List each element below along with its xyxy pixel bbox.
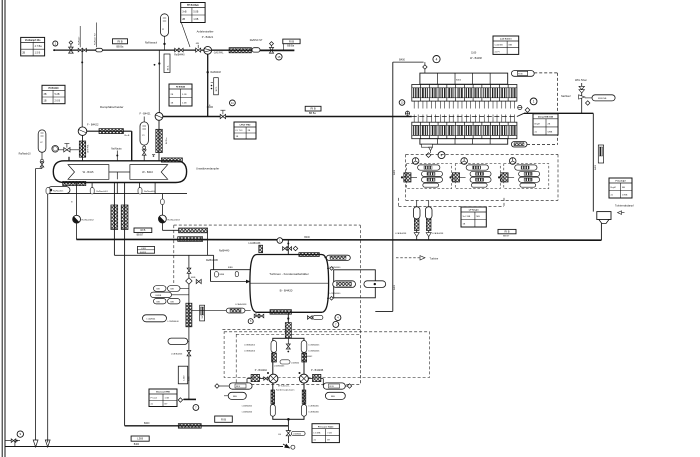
svg-text:L369: L369 — [141, 248, 147, 250]
svg-text:B400: B400 — [456, 80, 462, 82]
pipe main condensate header y=239.9 — [76, 238, 601, 241]
valve pair upper connect vessel — [327, 268, 329, 270]
vertical capsule above line A x=164 — [161, 14, 169, 37]
svg-text:2.6 B: 2.6 B — [55, 100, 61, 103]
table PI and bottom left — [149, 389, 177, 407]
pot drain to main line — [600, 224, 602, 241]
svg-text:Ra/Nashim: Ra/Nashim — [53, 191, 64, 193]
long drop line x=35.6 to bottom flare — [35, 169, 37, 443]
suction box bottom junction — [287, 418, 290, 421]
svg-text:Na/Nauta: Na/Nauta — [111, 148, 122, 151]
drum top stub x=69 — [68, 157, 70, 161]
outer dashed enclosure fan groups — [406, 153, 558, 155]
svg-text:LCB/B44: LCB/B44 — [291, 362, 300, 364]
label box Rl B left — [134, 228, 152, 233]
svg-text:LOB/B4455: LOB/B4455 — [244, 345, 256, 347]
svg-text:5/BB: 5/BB — [548, 131, 553, 133]
dashed double lines mid — [222, 329, 360, 331]
svg-text:3B TL: 3B TL — [216, 86, 218, 91]
svg-text:P - B4420B: P - B4420B — [311, 369, 324, 372]
stub capsule up to line B — [143, 117, 145, 122]
wire x=159 from line A down to pump P-B4421 — [158, 50, 160, 112]
svg-text:4: 4 — [441, 153, 443, 157]
svg-text:LCA/B4438: LCA/B4438 — [432, 232, 444, 235]
discharge capsules left Rl B — [229, 383, 252, 389]
level column LCA 2 — [428, 200, 430, 206]
node 10 circle left of bank — [399, 100, 405, 106]
svg-text:4: 4 — [436, 57, 438, 61]
node 4 instrument circle — [433, 56, 440, 63]
svg-text:PI: PI — [142, 135, 144, 137]
svg-text:Cold BB: Cold BB — [495, 45, 504, 47]
svg-text:1B: 1B — [44, 100, 47, 103]
svg-text:BB BT: BB BT — [137, 235, 144, 237]
svg-text:Luft Kühler: Luft Kühler — [500, 38, 512, 41]
pipe bottom header y=425.8 — [125, 425, 289, 427]
drum center partition — [109, 171, 130, 173]
hatch band drum bottom left — [63, 181, 86, 185]
svg-text:W - B415: W - B415 — [83, 170, 94, 174]
svg-text:B400: B400 — [394, 169, 396, 175]
svg-text:LCA/B4438: LCA/B4438 — [235, 303, 247, 306]
svg-text:Frischdpf: Frischdpf — [616, 181, 626, 183]
svg-text:Rl B: Rl B — [236, 386, 241, 388]
node 4 circle below bank — [426, 153, 431, 158]
dashed turbine arrow — [396, 257, 420, 259]
label box Rl B bottom — [215, 416, 233, 422]
junction tick at base — [207, 106, 213, 108]
svg-text:L369: L369 — [184, 375, 186, 381]
transfer line y=255.3 to condenser feed box — [114, 254, 213, 256]
feed box top edge to condenser — [211, 269, 257, 271]
relief valve box SV — [200, 305, 205, 321]
label box Rl B end of line A — [283, 39, 300, 44]
svg-text:Ra/B4440B: Ra/B4440B — [206, 260, 218, 262]
signal line up with tag Ra/NaLT NT — [95, 23, 97, 48]
table Luft Kuehler — [493, 36, 519, 54]
table Rl B conditions x=169 — [169, 84, 192, 106]
svg-text:2B: 2B — [182, 18, 185, 21]
svg-text:GHT PHL: GHT PHL — [88, 143, 90, 153]
capsule and valve below condenser right — [308, 316, 313, 320]
instrument 12 double circle — [52, 146, 59, 153]
steam trace hatch band on line A right — [212, 49, 252, 51]
wire elbow to left drop x=35 — [41, 167, 43, 169]
node 4 and 7 circles below condenser right — [335, 315, 341, 321]
drain valve and capsule bottom — [287, 426, 289, 431]
air cooler footer box — [420, 139, 508, 145]
fan group 1 left hatch box with valve — [404, 173, 411, 182]
right outlet capsule bottom with hatch — [511, 142, 527, 148]
drop line x=47.7 left — [47, 194, 49, 443]
svg-text:Ra/NaLT: Ra/NaLT — [78, 36, 80, 45]
svg-text:Turbinenabdampf: Turbinenabdampf — [615, 205, 634, 208]
table pressure bottom right — [312, 424, 339, 443]
svg-text:BB BT: BB BT — [503, 236, 510, 238]
make-up water line with check valves — [581, 83, 583, 113]
pump drop x=162.4 with drain pump — [161, 194, 163, 216]
label box beside riser — [164, 54, 170, 73]
svg-text:B400: B400 — [595, 164, 597, 170]
fan motor M1 circle with Y — [412, 158, 419, 165]
strainer capsule right rail — [301, 341, 307, 353]
svg-text:B4 Pos: B4 Pos — [166, 138, 168, 144]
svg-text:B400: B400 — [134, 444, 140, 446]
svg-text:B - B4420: B - B4420 — [280, 288, 293, 292]
svg-text:Anfahrstrahler: Anfahrstrahler — [197, 30, 214, 34]
svg-text:B4/BB: B4/BB — [156, 295, 162, 297]
mini instrument capsules on feed edge — [215, 272, 219, 278]
svg-text:Vordampf 44s: Vordampf 44s — [25, 39, 41, 42]
hatch column below P-B4421 to drum top — [158, 120, 160, 161]
air cooler tube bundle rows — [412, 85, 517, 102]
ejector circle on line A — [204, 46, 212, 54]
table PI pressure left — [42, 85, 65, 103]
lower dashed band — [399, 206, 505, 208]
hatch band condenser bottom — [270, 310, 291, 315]
condenser bottom outlet with hatch column — [287, 312, 289, 322]
vertical capsule F-B4421 side x=144 — [140, 122, 148, 145]
svg-text:F - B4422: F - B4422 — [87, 123, 99, 127]
capsule LCB horizontal x=178 — [168, 338, 188, 344]
label box Rl B mid line B — [305, 106, 321, 111]
riser x=593 down to condensate pot — [592, 113, 594, 211]
svg-text:LCB/B44: LCB/B44 — [293, 434, 302, 436]
fan motor M2 circle with Y — [461, 158, 468, 165]
svg-text:2B: 2B — [22, 52, 25, 55]
table TP Behaelter top — [181, 3, 205, 23]
svg-text:B/BB: B/BB — [220, 274, 225, 276]
svg-text:7.2B: 7.2B — [327, 432, 332, 434]
wire L elbow x=392.8 bottom — [375, 310, 393, 312]
steam trace hatch bands left of condenser — [179, 228, 208, 233]
label box L369 vertical — [178, 366, 187, 384]
valve circle below capsule to drum — [143, 145, 145, 161]
valve pair on line A x=178 — [175, 48, 179, 52]
inner capsule LCB — [280, 360, 290, 364]
svg-text:LCB/B4463: LCB/B4463 — [274, 366, 285, 368]
inline orifice capsule — [252, 48, 260, 52]
hatch band condenser top right — [299, 253, 319, 257]
wire B400 riser x=392.8 top elbow — [392, 62, 394, 311]
drain connection at left border — [5, 440, 20, 442]
border frame left double line — [1, 0, 3, 457]
label box Rl B above line A — [113, 39, 128, 44]
svg-text:B/BB: B/BB — [228, 267, 233, 269]
down arrows at drop lines — [33, 440, 38, 447]
svg-text:Dampfabscheider: Dampfabscheider — [100, 105, 124, 109]
signal line up with tag Ra/Nash — [79, 26, 81, 47]
left inlet flange symbol — [405, 111, 409, 115]
gauge capsule hatched — [333, 281, 356, 288]
svg-text:Rl B: Rl B — [330, 386, 335, 388]
svg-text:LCB/B4440: LCB/B4440 — [330, 293, 341, 295]
svg-text:1.5 B: 1.5 B — [35, 52, 41, 55]
bank bottom drain tabs — [421, 144, 432, 147]
label box L369 B409 — [137, 247, 154, 254]
flow element cluster capsules — [154, 286, 167, 292]
svg-text:Rl B: Rl B — [221, 418, 226, 422]
stub capsule to line A — [164, 36, 166, 50]
svg-text:L369: L369 — [137, 437, 143, 441]
svg-text:LV TL3: LV TL3 — [236, 130, 244, 132]
pipe line B right segment to riser x=593 — [517, 113, 524, 116]
condenser vessel B-B4420 barrel — [250, 255, 329, 313]
relief box beside riser — [598, 145, 603, 163]
node 1 instrument circle right of bank — [530, 98, 537, 105]
svg-text:Ra/Nash463: Ra/Nash463 — [168, 219, 181, 221]
pump/ejector P-B4422 circle — [78, 127, 87, 136]
label box on riser — [214, 78, 219, 95]
svg-text:Rl B: Rl B — [140, 228, 145, 232]
gauge capsule plain — [364, 281, 386, 288]
svg-text:Turbine: Turbine — [430, 256, 439, 260]
pump suction box — [273, 338, 304, 419]
level column LCA 1 — [416, 200, 418, 206]
svg-text:W - B4438: W - B4438 — [470, 57, 482, 60]
svg-text:BryM: BryM — [611, 186, 616, 189]
svg-text:1.5B: 1.5B — [165, 397, 170, 399]
air cooler return bends middle zone — [414, 101, 514, 122]
twin hatch columns below drum — [111, 205, 118, 230]
discharge capsules right Rl B — [323, 383, 345, 389]
svg-text:3B 1L: 3B 1L — [167, 64, 169, 70]
svg-text:B400: B400 — [399, 58, 405, 61]
svg-text:11: 11 — [231, 101, 234, 105]
strainer capsule left rail — [271, 341, 277, 353]
pump B discharge east — [308, 378, 312, 380]
svg-text:1160: 1160 — [471, 52, 477, 55]
control valve on line B x=222.9 — [220, 114, 225, 118]
svg-text:WKL 5/bar: WKL 5/bar — [575, 79, 587, 82]
vertical capsule vessel left x=42 — [38, 130, 46, 152]
capsule with label left of junction — [143, 315, 167, 322]
svg-text:1.6B: 1.6B — [193, 18, 198, 21]
svg-text:FRI/LNB: FRI/LNB — [598, 98, 607, 100]
dashed enclosure pumps inner — [236, 334, 360, 384]
drain end arrow and circle — [283, 444, 290, 448]
svg-text:TP B4 Beh: TP B4 Beh — [187, 4, 199, 7]
valve diamond into header — [423, 65, 427, 69]
svg-text:LCB/B4462: LCB/B4462 — [302, 356, 313, 358]
capsule Ra/Nashim left — [48, 187, 70, 194]
svg-text:Pressure Table: Pressure Table — [318, 426, 334, 428]
svg-text:Ra/Nassauf: Ra/Nassauf — [145, 43, 157, 45]
svg-text:MB: MB — [476, 216, 480, 218]
svg-text:BryM: BryM — [535, 122, 540, 125]
fan group 2 dashed box — [455, 164, 500, 189]
svg-text:Ra.B: Ra.B — [125, 135, 130, 137]
svg-text:17BB: 17BB — [622, 195, 628, 197]
svg-text:LCB/B4466: LCB/B4466 — [171, 354, 183, 356]
dashed enclosure upper — [174, 224, 360, 226]
vessel drum W-B415 W-B410 shell — [53, 161, 186, 183]
capsule FRI/LNB — [592, 95, 615, 101]
svg-text:BB Ba: BB Ba — [117, 46, 124, 49]
svg-text:LCB/B4440: LCB/B4440 — [168, 321, 180, 323]
hatch band drum top right — [161, 158, 182, 162]
junction diamond x=188.9 — [188, 255, 190, 399]
svg-text:1: 1 — [533, 100, 535, 104]
node 9 circle bottom left — [17, 431, 23, 437]
drop x=114.4 from drum — [113, 183, 115, 256]
fan group 3 dashed box — [504, 164, 549, 189]
svg-text:LP Kright: LP Kright — [469, 209, 479, 212]
svg-text:ScC BB: ScC BB — [463, 216, 471, 218]
svg-text:Ra/B4448: Ra/B4448 — [211, 72, 222, 74]
node 11 instrument circle — [230, 100, 236, 106]
riser elbow x=131.7 down to drum — [131, 131, 133, 161]
bank right outlet to line B jog — [518, 105, 522, 109]
svg-text:P - B4421: P - B4421 — [202, 35, 214, 39]
table condensate right — [461, 207, 486, 227]
svg-text:Nachlauf: Nachlauf — [561, 95, 571, 98]
svg-text:Dampf BB 15B: Dampf BB 15B — [538, 117, 554, 119]
svg-text:B400: B400 — [144, 423, 150, 425]
svg-text:Kondensatpumpen: Kondensatpumpen — [276, 389, 295, 392]
svg-text:6/BB: 6/BB — [191, 277, 196, 279]
svg-text:Umwälzverdampfer: Umwälzverdampfer — [196, 167, 219, 171]
svg-text:LCA/B4438: LCA/B4438 — [395, 232, 407, 235]
wire from band1 down to transfer line — [206, 233, 208, 256]
fan group 2 left hatch box with valve — [452, 173, 459, 182]
svg-text:B400: B400 — [304, 237, 310, 239]
pipe bottom drain line y=446.5 — [5, 446, 283, 448]
svg-text:Rl B/B44: Rl B/B44 — [176, 86, 186, 89]
svg-text:Ra/NNC NT: Ra/NNC NT — [250, 39, 263, 42]
line A tail to end — [260, 49, 294, 51]
fan group 3 louver capsules — [515, 165, 537, 170]
svg-text:Turbinen - Kondensatbehälter: Turbinen - Kondensatbehälter — [269, 272, 309, 276]
fan motor M3 circle with Y — [509, 158, 516, 165]
svg-text:LCB/B4465: LCB/B4465 — [309, 406, 320, 408]
svg-text:Ra/B4440: Ra/B4440 — [219, 251, 230, 253]
drum internal banner W-B415 — [68, 165, 109, 180]
svg-text:LCB/B4466: LCB/B4466 — [242, 412, 253, 414]
svg-text:GAS PAL: GAS PAL — [214, 52, 224, 55]
svg-text:Rl B: Rl B — [311, 107, 316, 111]
svg-text:2.4B: 2.4B — [182, 102, 187, 104]
svg-text:5.2B: 5.2B — [55, 93, 60, 96]
valve below capsule — [41, 152, 43, 162]
inline orifice capsule on line A — [96, 48, 103, 52]
fan group 1 dashed box — [407, 164, 452, 189]
svg-text:Rl B: Rl B — [117, 39, 122, 43]
svg-text:LCA/B44: LCA/B44 — [147, 318, 157, 321]
right outlet capsule top with hatch — [511, 71, 534, 77]
svg-text:B400: B400 — [394, 284, 396, 290]
svg-text:Ra/Nash401: Ra/Nash401 — [96, 191, 108, 193]
svg-text:BB Ba: BB Ba — [309, 112, 316, 115]
pump drop x=76.4 with drain pump — [75, 194, 77, 216]
svg-text:41 PI: 41 PI — [495, 51, 500, 53]
air cooler header box 5 cells — [420, 73, 508, 84]
svg-text:LG MB: LG MB — [314, 432, 321, 434]
svg-text:Ra/Nash10: Ra/Nash10 — [19, 153, 32, 156]
node 13 instrument circle — [53, 41, 58, 46]
dashed enclosure pumps outer — [224, 332, 429, 378]
label box Rl B right above main line — [498, 229, 516, 233]
gauge box right of condenser — [334, 270, 376, 298]
dashed link top right — [534, 72, 557, 74]
capsule on condenser top right — [326, 255, 350, 260]
svg-text:LP/LT PB2: LP/LT PB2 — [240, 125, 252, 127]
long drop x=124.6 from drum — [124, 183, 126, 426]
valves below condenser bottom left — [255, 312, 257, 315]
condensate pot vessel — [597, 212, 611, 220]
svg-text:Rl B: Rl B — [518, 74, 523, 76]
svg-text:LCB/B4466: LCB/B4466 — [309, 412, 320, 414]
svg-text:MB: MB — [509, 45, 513, 47]
fan group 1 louver capsules — [418, 165, 440, 170]
node 5 circle — [248, 319, 253, 324]
svg-text:PI B4410: PI B4410 — [49, 87, 60, 90]
control valve with stem x=67 — [59, 149, 80, 151]
pump2 discharge into hatch band — [161, 223, 163, 230]
flange end bar at junction drop bottom — [184, 398, 197, 400]
svg-text:P - B4420A: P - B4420A — [255, 369, 268, 372]
wire x=207.7 ejector down to line B — [207, 54, 209, 116]
control valve on line A x=71 — [69, 41, 73, 45]
svg-text:Ra/B4440: Ra/B4440 — [174, 55, 185, 57]
valve pair lower connect vessel — [327, 297, 329, 299]
svg-text:BB Ba: BB Ba — [287, 44, 294, 47]
svg-text:F - B4421: F - B4421 — [140, 113, 152, 116]
svg-text:Bronswil PIB: Bronswil PIB — [156, 392, 170, 394]
condensate inlet arrow into vessel left — [211, 281, 251, 283]
svg-text:Ra/Nash462: Ra/Nash462 — [82, 220, 95, 222]
svg-text:Rl B: Rl B — [289, 39, 294, 43]
svg-text:B4409: B4409 — [140, 252, 147, 254]
svg-text:W - B410: W - B410 — [142, 170, 153, 174]
table Frischdampf — [609, 178, 632, 198]
drum internal banner W-B410 — [130, 165, 168, 180]
svg-text:15: 15 — [277, 55, 281, 59]
svg-text:LCB/B4465: LCB/B4465 — [242, 406, 253, 408]
pipe line B y=116.5 main run — [163, 116, 412, 118]
junction valves on main line to condenser — [287, 240, 289, 254]
fan group 2 louver capsules — [466, 165, 488, 170]
table LP/LT gauge — [234, 122, 256, 139]
node 15 instrument circle — [276, 54, 282, 60]
callout line from table — [181, 23, 190, 48]
fan group 3 left hatch box with valve — [501, 173, 508, 182]
svg-text:Rl B: Rl B — [505, 230, 510, 234]
line B phantom through bank — [412, 116, 517, 118]
condenser mid water line — [250, 282, 328, 284]
svg-text:LCA/B4438: LCA/B4438 — [249, 242, 261, 245]
svg-text:3B: 3B — [44, 93, 47, 96]
pump A discharge west — [260, 378, 269, 380]
valve pair on line A — [78, 48, 82, 51]
svg-text:LOB/B4455: LOB/B4455 — [309, 345, 321, 347]
svg-text:M Turbinen -: M Turbinen - — [278, 385, 291, 388]
svg-text:3+B: 3+B — [182, 11, 187, 14]
angle valve with diamond x=271.5 — [270, 42, 274, 46]
instrument capsules on header — [46, 188, 50, 194]
hatch column below P-B4422 to drum top — [82, 136, 84, 161]
pipe blowdown header y=193.6 — [48, 193, 188, 195]
pipe from P-B4422 with steam trace hatch to drum riser — [87, 130, 132, 132]
svg-text:Ra/Nash402: Ra/Nash402 — [144, 191, 156, 193]
lower rail columns with capsules — [271, 390, 275, 404]
svg-text:6/B: 6/B — [196, 43, 200, 45]
svg-text:5.1B: 5.1B — [182, 94, 187, 96]
wire riser x=82 from line A to pump P-B4422 — [81, 50, 83, 127]
svg-text:LOB/B4456: LOB/B4456 — [244, 351, 256, 353]
drum bottom stubs — [75, 183, 77, 194]
svg-text:PI and: PI and — [151, 397, 158, 399]
